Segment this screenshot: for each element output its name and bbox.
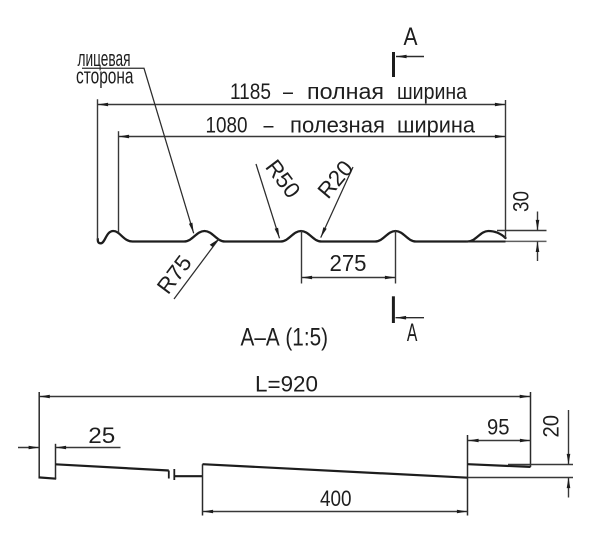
- right edge vertical (extension + sheet end): [530, 392, 532, 467]
- left end bottom flange: [39, 477, 57, 478]
- dimension line 275: [302, 277, 396, 279]
- svg-text:25: 25: [88, 423, 115, 448]
- dimension line L=920: [39, 396, 530, 398]
- svg-text:1185: 1185: [230, 79, 271, 104]
- dimension line 20 (vertical, arrows outside): [568, 410, 570, 465]
- left flange vertical: [55, 444, 57, 479]
- leader лицевая сторона (shelf + slant + arrowhead): [82, 68, 194, 233]
- extension line left (1080): [118, 131, 120, 232]
- dimension line 30 (vertical, arrows outside): [537, 212, 539, 231]
- right riser + 95/400 extension: [467, 435, 469, 516]
- svg-text:полезная: полезная: [290, 113, 385, 138]
- dimension line 1185: [98, 104, 506, 106]
- svg-text:400: 400: [320, 486, 352, 511]
- step drop: [168, 471, 170, 479]
- leader R20: [321, 167, 353, 238]
- right flange top (sloped): [468, 464, 531, 467]
- section mark bottom: thick bar: [392, 296, 395, 323]
- dimension 20: reference lines: [508, 464, 573, 466]
- dimension line 1080: [119, 136, 506, 138]
- dimension 95: [468, 440, 531, 442]
- sheet segment 1 (sloped): [56, 464, 169, 470]
- section mark top: arrow: [396, 56, 424, 58]
- step bottom segment: [175, 475, 203, 477]
- svg-text:20: 20: [539, 415, 564, 438]
- dimension 30: reference lines: [497, 230, 547, 232]
- section mark bottom: arrow: [396, 317, 425, 319]
- step riser + 400 extension left: [202, 464, 204, 515]
- extension line left (1185): [97, 99, 99, 239]
- svg-text:–: –: [264, 113, 274, 138]
- svg-text:ширина: ширина: [397, 79, 467, 104]
- sheet segment 2 (long slope): [203, 464, 468, 478]
- svg-text:–: –: [283, 79, 293, 104]
- leader R50: [256, 164, 280, 238]
- extension line right (shared 1185/1080): [505, 100, 507, 238]
- svg-text:ширина: ширина: [397, 113, 475, 138]
- svg-text:А–А (1:5): А–А (1:5): [241, 324, 329, 352]
- dimension line 400: [203, 511, 468, 513]
- svg-text:сторона: сторона: [76, 64, 134, 89]
- svg-text:А: А: [407, 319, 418, 347]
- svg-text:95: 95: [487, 415, 510, 440]
- svg-text:30: 30: [509, 191, 534, 212]
- svg-text:1080: 1080: [206, 113, 248, 138]
- svg-text:L=920: L=920: [255, 372, 318, 397]
- step tick: [173, 469, 175, 480]
- dimension 25 (arrows outside): [18, 447, 39, 449]
- left edge vertical (extension + sheet end): [38, 392, 40, 478]
- svg-text:275: 275: [330, 250, 367, 276]
- svg-text:полная: полная: [307, 79, 384, 104]
- section mark top: thick bar: [392, 52, 395, 77]
- dimension 275: extension lines: [301, 231, 303, 284]
- leader R75: [174, 239, 219, 299]
- profile curve (corrugated sheet cross-section): [98, 231, 506, 243]
- svg-text:А: А: [404, 23, 418, 51]
